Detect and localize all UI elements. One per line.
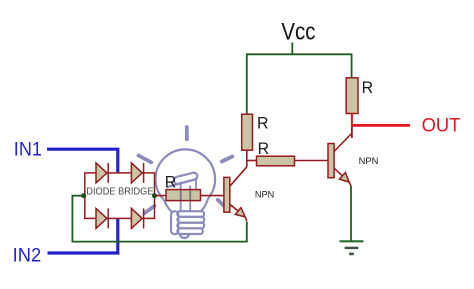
- lamp base thread 1: [177, 211, 204, 217]
- ground symbol: [340, 241, 364, 254]
- svg-text:DIODE BRIDGE: DIODE BRIDGE: [86, 187, 153, 198]
- Q1 base bar: [224, 177, 230, 212]
- lamp neck right: [201, 198, 209, 212]
- resistor R1 (left pull-up): [242, 114, 253, 150]
- Q2 collector diagonal: [334, 133, 352, 152]
- Q1 collector diagonal: [230, 167, 247, 187]
- Q2 emitter stub to ground wire: [349, 182, 351, 186]
- lamp filament right hanger: [195, 178, 197, 191]
- wire OUT net horizontal: [351, 124, 410, 127]
- wire Vcc stub below Vcc label: [291, 43, 293, 55]
- lamp ray top: [185, 127, 189, 139]
- wire R3 to Q2 base: [295, 160, 329, 162]
- wire OUT tee down to Q2 collector: [351, 127, 353, 139]
- Q1 emitter arrowhead: [235, 208, 245, 217]
- diode D4 (bottom-right): [131, 208, 143, 228]
- svg-text:NPN: NPN: [359, 156, 379, 166]
- wire IN2 (blue) from bridge AC2 bottom-center to IN2 label: [48, 219, 118, 254]
- lamp bottom contact: [180, 234, 190, 238]
- transistor Q2 NPN: [328, 133, 378, 186]
- svg-text:R: R: [362, 78, 374, 97]
- wire Q2 emitter to ground: [350, 186, 352, 242]
- Q2 emitter diagonal: [334, 168, 349, 182]
- lamp DS1 (light bulb drawing behind circuit): [139, 127, 233, 238]
- diode D2 (top-right): [131, 163, 143, 183]
- svg-text:IN2: IN2: [13, 245, 42, 267]
- wire bridge DC+ to R4: [155, 195, 167, 197]
- svg-text:NPN: NPN: [255, 190, 274, 200]
- Q1 emitter stub to rail: [245, 217, 247, 221]
- svg-text:IN1: IN1: [14, 138, 42, 160]
- lamp base cap left pill: [171, 211, 178, 234]
- lamp ray lower-left: [145, 206, 155, 213]
- lamp filament stem line: [167, 179, 196, 187]
- lamp filament loop: [173, 172, 198, 185]
- lamp filament support wire left: [180, 183, 182, 211]
- svg-text:Vcc: Vcc: [281, 19, 315, 46]
- lamp base thread 4: [177, 228, 202, 234]
- wire R1 bottom to Q1 collector junction: [246, 150, 248, 167]
- wire junction to R3: [246, 160, 257, 162]
- svg-text:R: R: [257, 113, 269, 132]
- svg-text:R: R: [258, 139, 270, 158]
- lamp base thread 3: [177, 223, 204, 229]
- lamp filament support wires visible through R4: [181, 190, 191, 200]
- wire R4 to Q1 base: [201, 195, 225, 197]
- wire Vcc rail right drop to R2: [351, 53, 353, 78]
- wire bridge negative node to bottom rail to Q1 emitter: [72, 196, 246, 242]
- diode D3 (bottom-left): [96, 208, 108, 228]
- resistor R2 (right pull-up): [346, 78, 358, 114]
- lamp base thread 2: [177, 217, 204, 223]
- lamp ray lower-right: [218, 200, 226, 208]
- resistor R3 (Q2 base series): [257, 156, 295, 166]
- lamp ray left: [139, 156, 152, 163]
- diode bridge box outline: [85, 173, 155, 219]
- wire Vcc rail horizontal: [246, 53, 351, 55]
- lamp filament support wire right: [189, 186, 191, 212]
- wire Vcc rail left drop to R1: [246, 53, 248, 114]
- Q2 base bar: [328, 144, 334, 178]
- svg-text:R: R: [165, 172, 177, 191]
- diode D1 (top-left): [96, 163, 108, 183]
- lamp ray right: [222, 157, 233, 162]
- Q1 emitter diagonal: [230, 204, 245, 217]
- node dot bridge left (DC-): [81, 193, 86, 198]
- svg-text:OUT: OUT: [422, 115, 461, 137]
- resistor R4 (series with Q1 base, over lamp): [166, 190, 201, 201]
- wire OUT net vertical (R2 bottom to OUT tee): [351, 114, 353, 128]
- node dot bridge right (DC+): [152, 193, 157, 198]
- lamp neck left: [164, 200, 172, 212]
- wire IN1 (blue) from IN1 label to bridge AC1 top-center: [47, 149, 118, 173]
- transistor Q1 NPN: [224, 167, 274, 221]
- Q2 emitter arrowhead: [339, 173, 349, 183]
- lamp glass globe (open at neck): [155, 149, 215, 200]
